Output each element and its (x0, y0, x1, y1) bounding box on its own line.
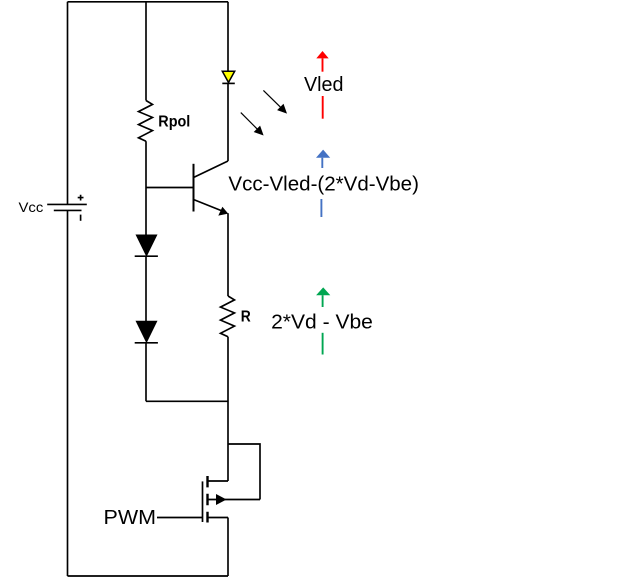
wire emitter to R (227, 213, 229, 296)
wire LED to collector (227, 83, 229, 161)
wire bottom rail (68, 575, 229, 577)
wire source to bottom rail (227, 518, 229, 577)
wire D1 to D2 (145, 256, 147, 321)
wire left rail lower (67, 210, 69, 576)
LED D3 (222, 71, 235, 83)
light emission arrow 2 (241, 113, 264, 136)
wire left rail upper (67, 2, 69, 205)
wire R to drain (227, 337, 229, 481)
transistor Q1 (194, 161, 229, 216)
battery Vcc (47, 195, 87, 221)
svg-text:Vcc: Vcc (19, 199, 44, 215)
wire source tap (208, 517, 229, 519)
svg-text:PWM: PWM (104, 507, 157, 529)
resistor R (221, 296, 235, 337)
svg-text:Vled: Vled (304, 74, 344, 96)
wire gate to PWM (157, 517, 203, 519)
wire base (146, 187, 194, 189)
wire Rpol to base node (145, 141, 147, 235)
wire bottom node to emitter branch (146, 400, 228, 402)
wire top rail (68, 1, 229, 3)
resistor Rpol (139, 101, 153, 142)
svg-text:Rpol: Rpol (158, 113, 190, 130)
MOSFET Q2 (203, 476, 261, 523)
arrow Vcc-Vled (blue) (316, 150, 330, 217)
wire drain tap (208, 480, 229, 482)
svg-text:R: R (241, 308, 251, 325)
diode D2 (135, 321, 158, 343)
wire gate feedback loop (228, 444, 260, 500)
wire D2 to bottom node (145, 343, 147, 402)
arrow 2*Vd-Vbe (green) (316, 287, 330, 354)
svg-text:Vcc-Vled-(2*Vd-Vbe): Vcc-Vled-(2*Vd-Vbe) (228, 174, 419, 196)
wire top rail to LED (227, 2, 229, 71)
diode D1 (135, 235, 158, 256)
svg-text:2*Vd - Vbe: 2*Vd - Vbe (271, 311, 373, 333)
arrow Vled (red) (316, 51, 328, 119)
wire top rail to Rpol (145, 2, 147, 101)
light emission arrow 1 (263, 90, 287, 113)
